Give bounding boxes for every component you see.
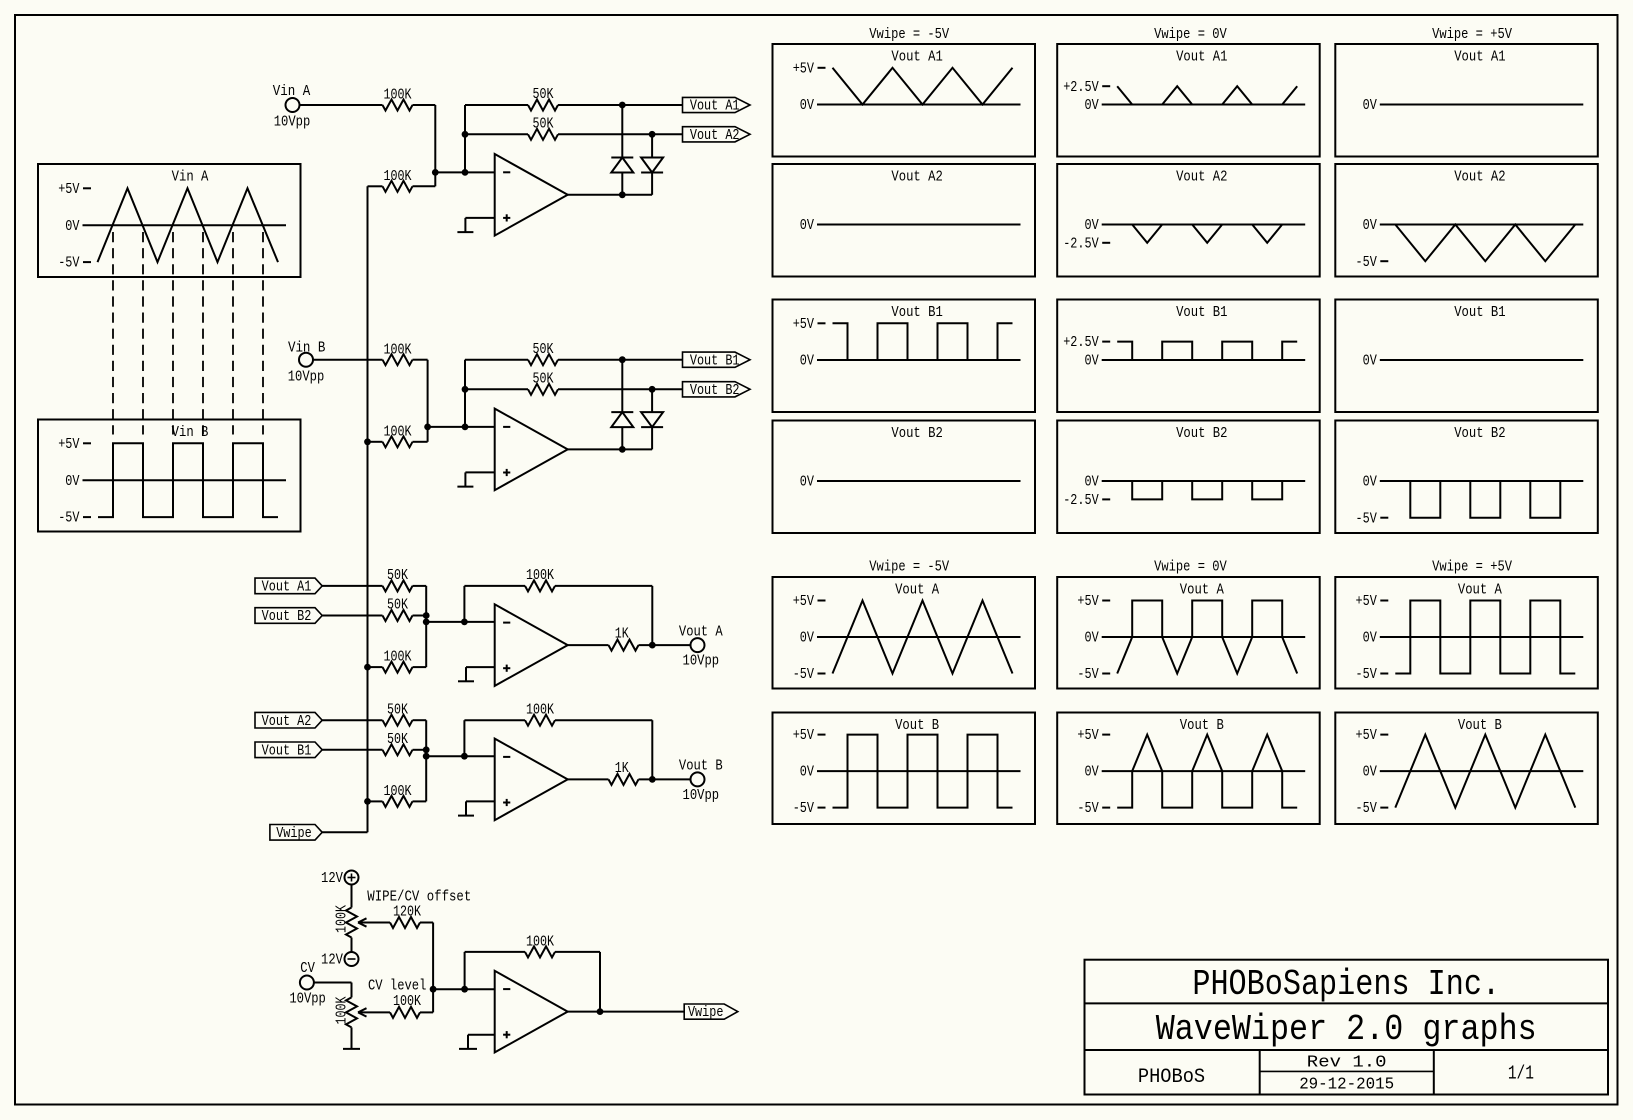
svg-text:PHOBoS: PHOBoS <box>1138 1066 1205 1089</box>
svg-text:Vout B1: Vout B1 <box>690 353 740 369</box>
svg-text:100K: 100K <box>384 650 412 666</box>
svg-text:+5V: +5V <box>793 61 815 77</box>
wire U2 non-inverting input to ground <box>465 472 494 486</box>
svg-text:Vout A1: Vout A1 <box>891 50 942 66</box>
diode D3 <box>611 360 633 450</box>
ground U5 <box>459 1048 477 1050</box>
wire to U3 inverting input <box>426 621 495 623</box>
svg-text:0V: 0V <box>1085 631 1099 647</box>
node U1 inverting input junction <box>432 169 439 176</box>
wire R18 to Vout B terminal <box>639 778 691 780</box>
svg-text:Vwipe = -5V: Vwipe = -5V <box>869 27 949 43</box>
graph Vout A2 at Vwipe=+5V <box>1335 164 1598 277</box>
net flag output Vwipe <box>684 1004 738 1021</box>
ground RV2 <box>343 1027 360 1049</box>
svg-text:0V: 0V <box>800 354 814 370</box>
wire feedback riser B <box>464 360 466 427</box>
input terminal CV <box>289 961 326 1008</box>
svg-text:+5V: +5V <box>793 317 815 333</box>
svg-text:Vout A: Vout A <box>895 583 939 599</box>
resistor R19 120K <box>390 905 433 990</box>
net flag input Vout A1 <box>255 578 322 595</box>
node bus tap R6 <box>364 438 371 445</box>
svg-text:0V: 0V <box>1085 354 1099 370</box>
wire U4 output to R18 <box>567 778 609 780</box>
node feedback tap A <box>462 169 469 176</box>
wire R1 to op-amp U1 inverting input <box>413 105 436 172</box>
graph Vout B2 at Vwipe=+5V <box>1335 421 1598 534</box>
svg-text:Vout A2: Vout A2 <box>1176 170 1227 186</box>
resistor R3 50K (Vout A1 feedback) <box>465 87 622 110</box>
ground U4 <box>458 815 474 817</box>
svg-text:Vout B1: Vout B1 <box>891 305 942 321</box>
svg-text:100K: 100K <box>335 905 351 933</box>
resistor R4 50K (Vout A2 feedback) <box>465 116 652 139</box>
resistor R7 50K (Vout B1 feedback) <box>465 342 622 365</box>
net flag Vout A1 <box>683 97 751 114</box>
svg-text:100K: 100K <box>526 702 554 718</box>
svg-text:-2.5V: -2.5V <box>1063 493 1099 509</box>
wire Vout B2 flag to R10 <box>322 615 382 617</box>
svg-text:Vout A2: Vout A2 <box>262 714 312 730</box>
wire Vout B1 flag to R15 <box>322 749 382 751</box>
svg-text:+5V: +5V <box>1356 594 1378 610</box>
svg-text:12V: 12V <box>321 871 343 887</box>
ground U2 <box>457 486 473 488</box>
input terminal Vin B <box>288 340 326 385</box>
node U3 feedback join <box>649 642 656 649</box>
resistor R9 50K (mixer A input 1) <box>383 568 427 667</box>
svg-text:Vout A2: Vout A2 <box>891 170 942 186</box>
resistor R21 100K (U5 feedback) <box>465 935 600 1012</box>
net flag input Vout B1 <box>255 742 322 759</box>
node mixer A input join 1 <box>423 612 430 619</box>
resistor R17 100K (U4 feedback) <box>464 702 652 779</box>
node mixer B input join 2 <box>423 753 430 760</box>
svg-text:100K: 100K <box>384 784 412 800</box>
svg-text:100K: 100K <box>384 169 412 185</box>
op-amp U5 <box>495 971 568 1053</box>
graph Vout B at Vwipe=+5V <box>1335 713 1598 825</box>
svg-text:-5V: -5V <box>1356 667 1378 683</box>
wire R13 to Vout A terminal <box>639 644 691 646</box>
svg-text:Vout B2: Vout B2 <box>891 426 942 442</box>
wire U4 non-inverting input to ground <box>466 801 495 815</box>
svg-text:Vout B1: Vout B1 <box>1176 305 1227 321</box>
svg-text:0V: 0V <box>1363 218 1377 234</box>
svg-text:100K: 100K <box>335 996 351 1024</box>
net flag input Vout A2 <box>255 712 322 729</box>
svg-text:+5V: +5V <box>1356 728 1378 744</box>
resistor R2 100K (Vwipe bus to U1) <box>368 169 436 192</box>
svg-text:Vout A1: Vout A1 <box>262 580 312 596</box>
svg-text:Vout B2: Vout B2 <box>1454 426 1505 442</box>
svg-text:Vout B: Vout B <box>679 759 723 775</box>
resistor R5 100K (Vin B input) <box>383 342 413 365</box>
svg-text:0V: 0V <box>800 98 814 114</box>
node Vwipe bus tap mixer B <box>364 798 371 805</box>
resistor R18 1K (Vout B series) <box>609 761 639 785</box>
wire to Vout A1 flag <box>622 104 682 106</box>
svg-text:Rev 1.0: Rev 1.0 <box>1307 1053 1387 1072</box>
svg-text:Vwipe = +5V: Vwipe = +5V <box>1432 560 1512 576</box>
node 50K tap A2 <box>462 131 469 138</box>
output terminal Vout A <box>679 624 723 669</box>
svg-text:-5V: -5V <box>793 667 815 683</box>
svg-text:-5V: -5V <box>793 801 815 817</box>
svg-text:0V: 0V <box>1363 354 1377 370</box>
wire to Vout B2 flag <box>652 388 682 390</box>
svg-text:Vin A: Vin A <box>172 170 209 186</box>
svg-text:10Vpp: 10Vpp <box>683 654 720 670</box>
svg-text:Vout B2: Vout B2 <box>262 609 312 625</box>
wire U1 output <box>567 194 653 196</box>
resistor R15 50K (mixer B input 2) <box>383 732 427 755</box>
wire Vwipe bus vertical <box>367 186 369 832</box>
graph Vout A1 at Vwipe=0V <box>1057 44 1320 157</box>
svg-text:100K: 100K <box>526 935 554 951</box>
svg-text:+5V: +5V <box>793 594 815 610</box>
node U5 feedback tap <box>461 986 468 993</box>
wire to U2 inverting input <box>428 426 495 428</box>
resistor R20 100K (CV) <box>390 989 433 1018</box>
graph Vout B1 at Vwipe=-5V <box>773 300 1036 413</box>
svg-text:+2.5V: +2.5V <box>1063 80 1099 96</box>
svg-text:+2.5V: +2.5V <box>1063 335 1099 351</box>
svg-text:Vout A2: Vout A2 <box>690 128 740 144</box>
svg-text:50K: 50K <box>387 568 408 584</box>
svg-text:0V: 0V <box>1085 475 1099 491</box>
svg-text:-5V: -5V <box>1356 511 1378 527</box>
ground U3 <box>458 680 474 682</box>
wire feedback riser A <box>464 105 466 172</box>
op-amp U1 <box>495 154 568 236</box>
svg-text:100K: 100K <box>384 342 412 358</box>
svg-text:Vwipe: Vwipe <box>688 1005 724 1021</box>
wire Vin A to R1 <box>300 104 383 106</box>
svg-text:0V: 0V <box>1363 631 1377 647</box>
node U3 feedback tap <box>461 619 468 626</box>
svg-text:Vwipe: Vwipe <box>276 826 312 842</box>
potentiometer RV1 100K (WIPE/CV offset) <box>335 905 390 938</box>
svg-text:10Vpp: 10Vpp <box>274 115 311 131</box>
node U5 input join <box>430 986 437 993</box>
svg-text:100K: 100K <box>393 994 421 1010</box>
svg-text:Vout A1: Vout A1 <box>690 99 740 115</box>
svg-text:Vout B2: Vout B2 <box>1176 426 1227 442</box>
wire Vout A2 flag to R14 <box>322 719 382 721</box>
potentiometer RV2 100K (CV level) <box>335 996 390 1027</box>
svg-text:100K: 100K <box>384 88 412 104</box>
power terminal +12V <box>321 871 358 888</box>
wire Vin B to R5 <box>313 359 383 361</box>
node diode D4 top <box>649 386 656 393</box>
svg-text:WaveWiper 2.0 graphs: WaveWiper 2.0 graphs <box>1156 1009 1537 1050</box>
op-amp U2 <box>495 409 568 491</box>
graph Vout B2 at Vwipe=-5V <box>773 421 1036 534</box>
svg-text:Vwipe = -5V: Vwipe = -5V <box>869 560 949 576</box>
svg-text:0V: 0V <box>1085 98 1099 114</box>
svg-text:1/1: 1/1 <box>1508 1063 1534 1085</box>
wire to U4 inverting input <box>426 755 495 757</box>
svg-text:Vwipe = 0V: Vwipe = 0V <box>1154 560 1227 576</box>
resistor R6 100K (Vwipe bus to U2) <box>368 424 428 447</box>
net flag input Vout B2 <box>255 608 322 625</box>
resistor R16 100K (Vwipe to mixer B) <box>368 784 427 807</box>
svg-text:Vout A: Vout A <box>1180 583 1224 599</box>
wire U3 output to R13 <box>567 644 609 646</box>
svg-text:29-12-2015: 29-12-2015 <box>1299 1076 1394 1095</box>
node diode D2 top <box>649 131 656 138</box>
output terminal Vout B <box>679 759 723 804</box>
svg-text:Vout A2: Vout A2 <box>1454 170 1505 186</box>
wire U2 output <box>567 448 653 450</box>
net flag Vout B2 <box>683 382 751 399</box>
op-amp U3 <box>495 604 568 686</box>
svg-text:+5V: +5V <box>793 728 815 744</box>
svg-text:0V: 0V <box>800 765 814 781</box>
svg-text:0V: 0V <box>800 475 814 491</box>
graph Vout A at Vwipe=+5V <box>1335 577 1598 689</box>
wire U3 non-inverting input to ground <box>466 667 495 681</box>
diode D1 <box>611 105 633 195</box>
wire U5 non-inverting input to ground <box>468 1035 495 1049</box>
svg-text:1K: 1K <box>615 627 629 643</box>
wire U5 output to Vwipe flag <box>567 1011 685 1013</box>
diode D2 <box>641 134 663 195</box>
svg-text:WIPE/CV offset: WIPE/CV offset <box>367 890 471 906</box>
svg-text:120K: 120K <box>393 905 421 921</box>
timing dashed guide lines <box>113 232 263 435</box>
resistor R13 1K (Vout A series) <box>609 627 639 651</box>
net flag Vout A2 <box>683 127 751 144</box>
svg-text:0V: 0V <box>800 631 814 647</box>
svg-text:50K: 50K <box>387 598 408 614</box>
input terminal Vin A <box>273 84 311 131</box>
svg-text:50K: 50K <box>533 371 554 387</box>
graph Vin A (triangle wave) <box>38 164 301 277</box>
svg-text:Vout B1: Vout B1 <box>1454 305 1505 321</box>
svg-text:Vout B2: Vout B2 <box>690 383 740 399</box>
svg-text:0V: 0V <box>1363 98 1377 114</box>
net flag input Vwipe <box>270 825 322 842</box>
svg-text:CV level: CV level <box>368 979 426 995</box>
op-amp U4 <box>495 739 568 821</box>
wire to U1 inverting input <box>435 171 494 173</box>
graph Vout B2 at Vwipe=0V <box>1057 421 1320 534</box>
svg-text:10Vpp: 10Vpp <box>683 788 720 804</box>
node diode D3 top <box>619 356 626 363</box>
title block <box>1085 960 1609 1095</box>
graph Vout A at Vwipe=0V <box>1057 577 1320 689</box>
svg-text:10Vpp: 10Vpp <box>288 370 325 386</box>
node U2 output junction <box>619 446 626 453</box>
svg-text:100K: 100K <box>526 568 554 584</box>
node 50K tap B2 <box>462 386 469 393</box>
svg-text:50K: 50K <box>533 116 554 132</box>
resistor R10 50K (mixer A input 2) <box>383 598 427 621</box>
resistor R12 100K (U3 feedback) <box>464 568 652 645</box>
resistor R8 50K (Vout B2 feedback) <box>465 371 652 394</box>
svg-text:0V: 0V <box>1085 218 1099 234</box>
wire CV to RV2 <box>314 983 352 998</box>
node U5 feedback join <box>597 1008 604 1015</box>
svg-text:0V: 0V <box>800 218 814 234</box>
svg-text:Vin B: Vin B <box>172 425 209 441</box>
svg-text:0V: 0V <box>65 474 79 490</box>
node U4 feedback tap <box>461 753 468 760</box>
resistor R11 100K (Vwipe to mixer A) <box>368 650 427 673</box>
diode D4 <box>641 389 663 449</box>
svg-text:-5V: -5V <box>58 511 80 527</box>
node U4 feedback join <box>649 776 656 783</box>
wire U1 non-inverting input to ground <box>465 218 494 232</box>
graph Vout B at Vwipe=-5V <box>773 713 1036 825</box>
svg-text:+5V: +5V <box>1077 728 1099 744</box>
svg-text:0V: 0V <box>1085 765 1099 781</box>
svg-text:Vout B: Vout B <box>1458 718 1502 734</box>
svg-text:Vout A1: Vout A1 <box>1454 50 1505 66</box>
svg-text:-2.5V: -2.5V <box>1063 236 1099 252</box>
svg-text:-5V: -5V <box>1077 801 1099 817</box>
svg-text:Vout A: Vout A <box>1458 583 1502 599</box>
resistor R1 100K (Vin A input) <box>383 88 413 111</box>
svg-text:50K: 50K <box>533 87 554 103</box>
svg-text:0V: 0V <box>65 219 79 235</box>
svg-text:100K: 100K <box>384 424 412 440</box>
graph Vout A2 at Vwipe=-5V <box>773 164 1036 277</box>
node Vwipe bus tap mixer A <box>364 664 371 671</box>
svg-text:Vwipe = +5V: Vwipe = +5V <box>1432 27 1512 43</box>
graph Vout A1 at Vwipe=-5V <box>773 44 1036 157</box>
svg-text:Vout A1: Vout A1 <box>1176 50 1227 66</box>
graph Vout B1 at Vwipe=0V <box>1057 300 1320 413</box>
node U2 inverting input junction <box>424 424 431 431</box>
svg-text:-5V: -5V <box>1356 255 1378 271</box>
node feedback tap B <box>462 424 469 431</box>
wire to U5 inverting input <box>433 988 495 990</box>
wire Vwipe flag to bus <box>322 831 367 833</box>
svg-text:50K: 50K <box>387 702 408 718</box>
wire +12V to RV1 <box>351 885 353 908</box>
wire to Vout A2 flag <box>652 133 682 135</box>
wire Vout A1 flag to R9 <box>322 585 382 587</box>
svg-text:1K: 1K <box>615 761 629 777</box>
svg-text:-5V: -5V <box>58 256 80 272</box>
svg-text:0V: 0V <box>1363 475 1377 491</box>
svg-text:10Vpp: 10Vpp <box>289 991 326 1007</box>
net flag Vout B1 <box>683 352 751 369</box>
svg-text:50K: 50K <box>387 732 408 748</box>
svg-text:CV: CV <box>300 961 315 977</box>
graph Vout A1 at Vwipe=+5V <box>1335 44 1598 157</box>
svg-text:Vin A: Vin A <box>273 84 311 100</box>
svg-text:PHOBoSapiens Inc.: PHOBoSapiens Inc. <box>1192 964 1500 1005</box>
node diode D1 top <box>619 102 626 109</box>
svg-text:Vout B: Vout B <box>1180 718 1224 734</box>
svg-text:+5V: +5V <box>58 437 80 453</box>
svg-text:Vin B: Vin B <box>288 340 326 356</box>
wire R5 to op-amp U2 inverting input <box>413 360 428 427</box>
graph Vout A2 at Vwipe=0V <box>1057 164 1320 277</box>
svg-text:+5V: +5V <box>58 182 80 198</box>
graph Vout B at Vwipe=0V <box>1057 713 1320 825</box>
svg-text:Vout B: Vout B <box>895 718 939 734</box>
svg-text:Vwipe = 0V: Vwipe = 0V <box>1154 27 1227 43</box>
svg-text:Vout A: Vout A <box>679 624 723 640</box>
svg-text:+5V: +5V <box>1077 594 1099 610</box>
graph Vin B (square wave) <box>38 420 301 532</box>
svg-text:12V: 12V <box>321 953 343 969</box>
svg-text:0V: 0V <box>1363 765 1377 781</box>
power terminal -12V <box>321 952 358 969</box>
svg-text:50K: 50K <box>533 342 554 358</box>
svg-text:-5V: -5V <box>1077 667 1099 683</box>
node mixer A input join 2 <box>423 619 430 626</box>
graph Vout B1 at Vwipe=+5V <box>1335 300 1598 413</box>
wire to Vout B1 flag <box>622 359 682 361</box>
resistor R14 50K (mixer B input 1) <box>383 702 427 801</box>
ground U1 <box>457 231 473 233</box>
svg-text:-5V: -5V <box>1356 801 1378 817</box>
wire RV1 to -12V <box>351 938 353 953</box>
node mixer B input join 1 <box>423 746 430 753</box>
node U1 output junction <box>619 191 626 198</box>
graph Vout A at Vwipe=-5V <box>773 577 1036 689</box>
svg-text:Vout B1: Vout B1 <box>262 743 312 759</box>
